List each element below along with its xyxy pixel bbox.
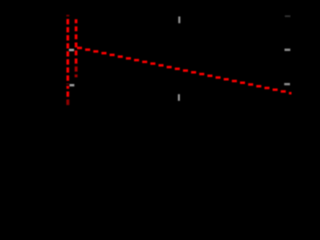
node G label — [285, 15, 291, 17]
node C label — [69, 49, 74, 51]
wire: dimmer on first left dash — [66, 14, 70, 17]
wire: dim tail of left line bottom dash — [66, 99, 70, 106]
node B label — [285, 49, 291, 51]
node A label — [178, 17, 180, 24]
wire: right vertical dashed line — [75, 19, 78, 77]
wire: left vertical dashed line — [66, 15, 69, 106]
wire: gap in left line at lower label — [66, 84, 70, 86]
node F label — [284, 83, 290, 85]
node D label — [70, 84, 75, 86]
wire: dim lower part of right line — [74, 64, 78, 78]
node E label — [178, 94, 180, 101]
wire: diagonal dashed line — [77, 47, 292, 95]
